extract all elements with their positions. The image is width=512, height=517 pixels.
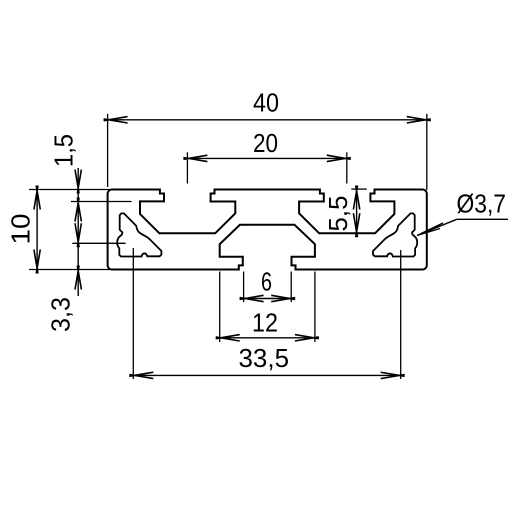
dim 6 left arrow xyxy=(240,295,264,301)
dim 3,3 upper extension line / hole center mark xyxy=(72,242,125,244)
dim 1,5 upper arrow xyxy=(75,170,81,194)
dim 40 right extension line xyxy=(426,114,428,190)
hole callout underline xyxy=(457,218,508,220)
svg-text:12: 12 xyxy=(252,308,278,338)
dim 12 dimension line xyxy=(220,337,315,339)
svg-text:40: 40 xyxy=(253,87,279,117)
dim 33,5 left arrow xyxy=(129,372,153,378)
svg-text:33,5: 33,5 xyxy=(239,343,290,373)
dim 40 left extension line xyxy=(107,114,109,187)
dim 40 right arrow xyxy=(407,117,431,123)
right corner cavity with screw channel arcs xyxy=(373,213,417,256)
dim 5,5 bottom arrow xyxy=(353,213,359,237)
dim 6 dimension line xyxy=(244,298,292,300)
dim 20 left arrow xyxy=(183,155,207,161)
dim 1,5 / 3,3 shared dimension line xyxy=(77,168,79,296)
dim 10 top arrow xyxy=(34,186,40,210)
dim 10 dimension line xyxy=(36,190,38,270)
dim 20 dimension line xyxy=(187,157,346,159)
dim 33,5 dimension line xyxy=(133,374,400,376)
dim 20 left extension line xyxy=(186,152,188,183)
dim 1,5 lower arrow xyxy=(75,198,81,222)
dim 20 right extension line xyxy=(346,152,348,183)
dim 10 bottom arrow xyxy=(34,250,40,274)
svg-text:1,5: 1,5 xyxy=(49,134,79,167)
dim 6 right arrow xyxy=(271,295,295,301)
dim 5,5 dimension line xyxy=(356,190,358,234)
dim 12 left arrow xyxy=(216,335,240,341)
dim 33,5 right arrow xyxy=(381,372,405,378)
svg-text:10: 10 xyxy=(6,214,36,245)
dim 33,5 right extension line / hole center mark xyxy=(400,250,402,379)
svg-text:6: 6 xyxy=(261,267,272,297)
hole callout leader with arrow xyxy=(417,219,457,235)
dim 40 left arrow xyxy=(104,117,128,123)
dim 5,5 top arrow xyxy=(353,186,359,210)
dim 12 left extension line xyxy=(219,272,221,343)
dim 10 bottom extension line xyxy=(29,269,110,271)
dim 6 right extension line xyxy=(290,272,292,303)
dim 20 right arrow xyxy=(327,155,351,161)
svg-text:3,3: 3,3 xyxy=(46,297,76,332)
dim 3,3 upper arrow xyxy=(75,223,81,247)
svg-text:Ø3,7: Ø3,7 xyxy=(457,188,507,218)
left corner cavity with screw channel arcs xyxy=(117,213,161,256)
dim 3,3 lower arrow xyxy=(75,266,81,290)
dim 40 dimension line xyxy=(108,119,427,121)
dim 1,5 lower extension line xyxy=(71,201,132,203)
dim 10 top extension line xyxy=(29,189,110,191)
dim 6 left extension line xyxy=(243,272,245,303)
dim 5,5 top extension line xyxy=(351,188,367,190)
profile outer outline xyxy=(108,190,427,270)
dim 12 right extension line xyxy=(314,272,316,343)
dim 33,5 left extension line / hole center mark xyxy=(132,248,134,379)
svg-text:5,5: 5,5 xyxy=(323,196,353,232)
dim 12 right arrow xyxy=(295,335,319,341)
svg-text:20: 20 xyxy=(253,128,278,158)
